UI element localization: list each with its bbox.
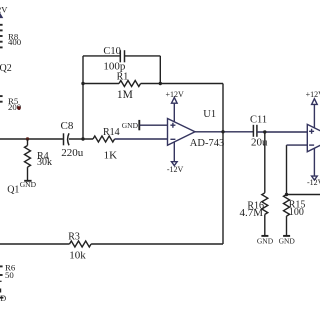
svg-text:GND: GND (20, 180, 37, 189)
node: output junction (221, 130, 224, 133)
svg-text:4.7M: 4.7M (239, 207, 263, 219)
svg-text:400: 400 (8, 37, 22, 47)
svg-text:C10: C10 (103, 46, 121, 57)
resistor R16 4.7M (262, 132, 268, 235)
svg-text:GND: GND (0, 294, 6, 303)
resistor R14 1K (93, 136, 115, 142)
resistor R6 (cut at left edge) (0, 266, 3, 281)
svg-text:1K: 1K (104, 149, 118, 161)
svg-text:10k: 10k (69, 249, 86, 261)
wire: U1 output (195, 131, 253, 133)
wire: output column x=223 (222, 84, 224, 245)
svg-text:R14: R14 (103, 127, 120, 138)
resistor R3 10k (70, 241, 224, 247)
svg-text:C8: C8 (61, 120, 74, 132)
svg-text:C11: C11 (250, 115, 267, 126)
wire: U2 inverting input (287, 144, 308, 146)
ground under R15 (283, 235, 290, 237)
wire stub at left edge (0, 289, 2, 293)
svg-text:U1: U1 (203, 109, 216, 120)
node: feedback right junction (159, 82, 162, 85)
svg-text:30k: 30k (37, 157, 52, 168)
node: feedback junction on input line (81, 137, 84, 140)
svg-text:+12V: +12V (0, 4, 8, 14)
svg-text:GND: GND (257, 236, 274, 245)
ground bottom-left (cut) (0, 297, 3, 299)
+12V supply arrow (cut at left edge) (0, 13, 3, 18)
node: junction at R4 tap (dark red) (26, 137, 29, 140)
resistor R15 100 (284, 145, 290, 235)
node: R16 tap junction (263, 130, 266, 133)
svg-text:R1: R1 (117, 71, 129, 82)
svg-text:100: 100 (289, 207, 304, 218)
op-amp U1 AD-743 (168, 98, 196, 166)
wire: gnd bar to + input (139, 124, 167, 126)
svg-text:GND: GND (122, 121, 139, 130)
wire: feedback to output column (160, 83, 223, 85)
svg-text:GND: GND (279, 236, 296, 245)
ground under R16 (261, 235, 268, 237)
svg-text:220u: 220u (61, 147, 84, 159)
svg-text:1M: 1M (117, 89, 133, 101)
op-amp U2 (cut at right edge) (307, 99, 320, 180)
capacitor C11 20u (253, 125, 257, 137)
svg-text:+12V: +12V (306, 90, 320, 99)
resistor R1 1M (83, 81, 160, 87)
resistor R4 30k (25, 139, 31, 180)
node: R1/C10 left junction (81, 82, 84, 85)
svg-text:100p: 100p (103, 60, 126, 72)
svg-text:Q1: Q1 (7, 185, 19, 196)
node dot (red) on R5 net (17, 106, 21, 110)
capacitor C8 220u (64, 133, 70, 145)
svg-text:+12V: +12V (166, 90, 185, 99)
capacitor C10 100p (83, 56, 160, 84)
svg-text:R3: R3 (68, 232, 80, 243)
svg-text:-12V: -12V (307, 178, 320, 187)
svg-text:AD-743: AD-743 (190, 138, 224, 149)
wire: main input line y=139 (0, 138, 63, 140)
wire: bottom return line (0, 243, 70, 245)
svg-text:-12V: -12V (167, 165, 184, 174)
wire: C11 to U2 + input (257, 131, 307, 133)
ground under R4 (24, 180, 31, 182)
svg-text:Q2: Q2 (0, 63, 12, 74)
resistor R5 (cut at left edge) (0, 96, 3, 102)
svg-text:50: 50 (5, 270, 14, 280)
resistor R8 (cut at left edge) (0, 25, 3, 48)
wire: feedback vertical x=83 (82, 84, 84, 140)
wire: feedback stub to edge (287, 194, 320, 196)
wire: R14 to inverting input (115, 138, 168, 140)
wire: C8 to R14 (69, 138, 93, 140)
node: R15/feedback junction (285, 193, 288, 196)
